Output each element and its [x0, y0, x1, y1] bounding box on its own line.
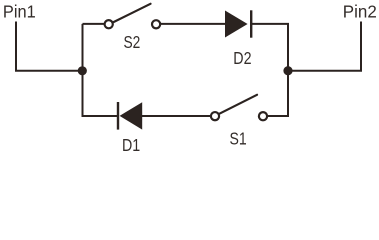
switch S1: [211, 95, 267, 120]
switch S1 lever: [219, 95, 257, 114]
wire D1 anode to S1 pole: [142, 115, 212, 117]
svg-text:Pin1: Pin1: [3, 2, 36, 22]
wire top rail to S2: [83, 23, 106, 25]
wire D2 cathode to right corner and down to S1: [251, 24, 288, 116]
switch S1 pole contact: [211, 112, 219, 120]
svg-text:Pin2: Pin2: [343, 2, 377, 22]
switch S2 lever: [113, 4, 151, 23]
diode D1 anode triangle: [120, 102, 143, 129]
junction right node: [283, 66, 292, 75]
junction left node: [78, 66, 87, 75]
svg-text:S1: S1: [230, 129, 247, 149]
svg-text:S2: S2: [124, 32, 141, 52]
svg-text:D2: D2: [233, 48, 251, 68]
diode D1 cathode bar: [117, 102, 119, 130]
diode D2 cathode bar: [250, 10, 252, 37]
wire S2 to D2 anode: [160, 23, 226, 25]
diode D1: [118, 102, 142, 130]
switch S2 throw contact: [152, 20, 160, 28]
node Pin2 lead wire: [288, 22, 361, 71]
switch S1 throw contact: [259, 112, 267, 120]
node Pin1 lead wire: [16, 22, 82, 71]
switch S2: [105, 4, 161, 29]
diode D2: [225, 10, 251, 37]
wire left vertical branch: [83, 24, 118, 116]
diode D2 anode triangle: [225, 11, 248, 38]
switch S2 pole contact: [105, 20, 113, 28]
svg-text:D1: D1: [122, 135, 140, 154]
